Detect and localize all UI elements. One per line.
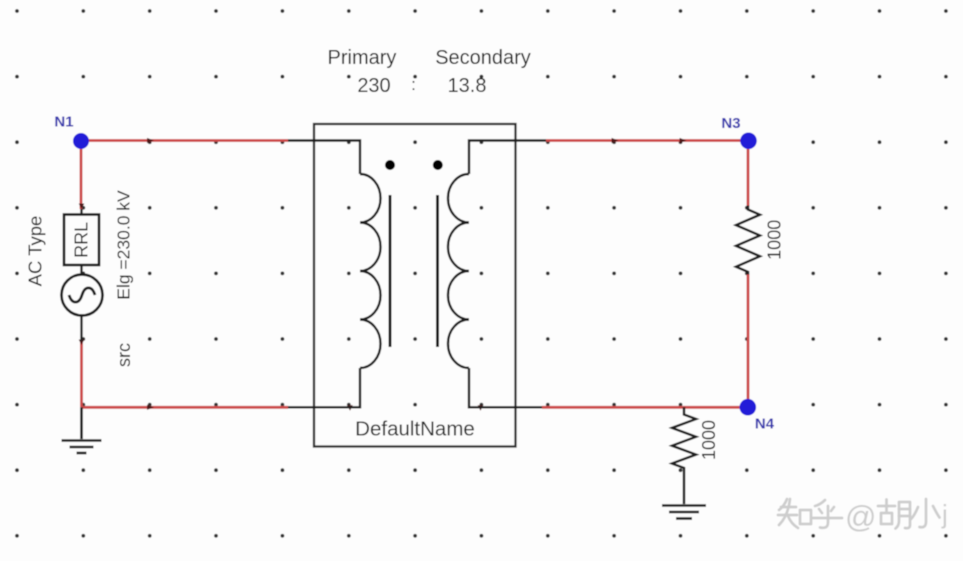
svg-text:1000: 1000 (765, 220, 785, 260)
polarity dot secondary (433, 160, 443, 170)
svg-text:1000: 1000 (699, 420, 719, 460)
svg-text:230: 230 (357, 75, 390, 97)
svg-text::: : (411, 75, 416, 94)
secondary winding (448, 141, 516, 408)
primary winding (314, 141, 380, 408)
ground under resistor R2 (662, 506, 706, 519)
svg-text:@: @ (845, 499, 876, 534)
wire N1 to transformer primary top (81, 139, 288, 142)
wire ground junction to transformer primary bottom (82, 406, 289, 409)
svg-text:RRL: RRL (72, 222, 92, 258)
wire N4 to transformer secondary bottom (542, 406, 748, 409)
svg-text:AC Type: AC Type (25, 216, 46, 287)
node N4 (740, 399, 757, 416)
ground under source (62, 407, 102, 453)
wire resistor R1 to N4 (747, 274, 750, 407)
resistor R2 1000 from N4 wire to ground (672, 407, 696, 504)
source impedance box RRL (64, 215, 99, 266)
source lead bottom (80, 316, 82, 342)
sine symbol (69, 288, 95, 302)
transformer secondary lead stub right bottom (516, 406, 543, 408)
svg-text:DefaultName: DefaultName (355, 418, 475, 441)
wire transformer secondary top to N3 (546, 139, 748, 142)
wire N3 down to resistor R1 (747, 141, 750, 207)
wire N1 down to source (80, 141, 83, 210)
svg-text:N4: N4 (755, 416, 775, 433)
svg-text:j: j (941, 499, 948, 529)
svg-text:Elg =230.0 kV: Elg =230.0 kV (114, 190, 134, 300)
wire source bottom to ground junction (80, 341, 83, 407)
node N3 (740, 133, 757, 150)
svg-text:13.8: 13.8 (448, 75, 487, 97)
svg-text:Secondary: Secondary (435, 47, 531, 69)
watermark zhihu (778, 499, 842, 528)
resistor R1 1000 between N3 and N4 (736, 206, 760, 275)
wire arrow marks (79, 138, 687, 411)
AC source component lead top (80, 209, 82, 214)
transformer primary lead stub left top (288, 139, 314, 141)
svg-text:Primary: Primary (328, 47, 397, 69)
source lead between box and circle (80, 265, 82, 274)
transformer primary lead stub left bottom (288, 406, 314, 408)
svg-text:N1: N1 (54, 114, 73, 131)
svg-text:src: src (114, 343, 134, 367)
transformer T1 outer box (314, 124, 516, 447)
svg-text:N3: N3 (721, 115, 740, 132)
polarity dot primary (385, 160, 395, 170)
node N1 (73, 133, 89, 149)
transformer core bar left (389, 195, 392, 347)
transformer secondary lead stub right top (516, 139, 547, 141)
AC source circle (62, 275, 103, 316)
transformer core bar right (436, 195, 439, 347)
